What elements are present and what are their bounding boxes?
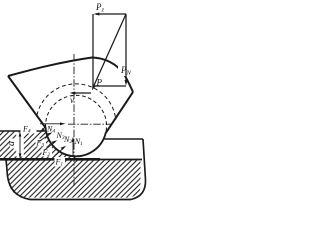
right uncut surface line bbox=[105, 138, 144, 140]
white gap for F4 label on surface line bbox=[21, 125, 37, 134]
force rectangle construction edges bbox=[93, 14, 126, 86]
machined level thick line bbox=[0, 158, 100, 161]
svg-text:N4: N4 bbox=[46, 125, 55, 135]
lower block right edge bbox=[131, 139, 146, 200]
lower block hatch bbox=[7, 160, 141, 197]
white strip for dimension a bbox=[16, 133, 24, 157]
svg-text:v: v bbox=[70, 95, 74, 105]
uncut layer top surface line bbox=[0, 130, 45, 132]
outer dashed arc (deformation boundary) bbox=[37, 84, 116, 120]
depth dimension a arrow bbox=[19, 133, 21, 157]
svg-text:P: P bbox=[96, 78, 103, 88]
svg-text:Pz: Pz bbox=[95, 2, 105, 14]
tool body top curve bbox=[8, 58, 133, 93]
white gap for PN label over curve bbox=[118, 63, 134, 76]
tool right edge diagonal bbox=[106, 92, 133, 133]
vertical centre line bbox=[73, 54, 75, 186]
uncut layer hatch (left) bbox=[0, 132, 76, 159]
PN arrow (right edge) bbox=[125, 14, 127, 83]
horizontal centre line bbox=[68, 123, 112, 125]
F4 small arrow bbox=[43, 126, 46, 130]
svg-text:a: a bbox=[6, 141, 17, 146]
svg-text:N1: N1 bbox=[74, 137, 83, 147]
solid edge arc bbox=[46, 128, 106, 157]
lower block left edge bbox=[6, 159, 30, 200]
Pz arrow (top edge) bbox=[96, 13, 126, 15]
tool flank line bbox=[8, 76, 46, 128]
v arrow bbox=[72, 92, 91, 94]
dashed circle (cutting edge radius) bbox=[46, 95, 107, 132]
lower block bottom edge bbox=[30, 199, 131, 201]
label a (rotated) bbox=[10, 139, 18, 149]
P resultant arrow bbox=[94, 14, 127, 87]
N arrows bbox=[40, 123, 63, 125]
svg-text:N2: N2 bbox=[63, 135, 72, 145]
